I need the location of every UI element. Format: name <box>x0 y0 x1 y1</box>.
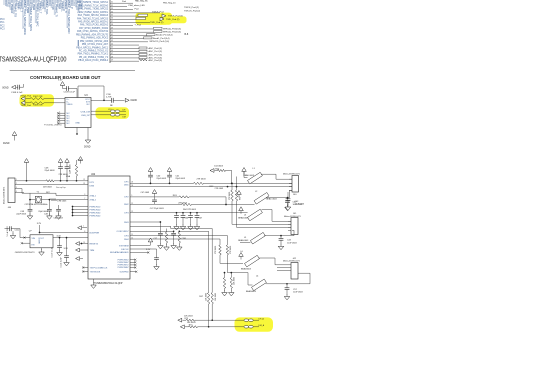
resistor R70 <box>226 245 228 255</box>
wire: U3 VCC out <box>91 99 112 101</box>
svg-text:DM3: DM3 <box>124 222 129 224</box>
node: leftmost cut-off pin names <box>0 19 5 31</box>
resistor R32 WPDATA <box>154 27 163 29</box>
wire: J44 pin4 <box>19 192 24 194</box>
resistor R68 15K <box>211 293 213 305</box>
svg-text:TUSB2046B-PRG4 32-QFP: TUSB2046B-PRG4 32-QFP <box>94 283 123 285</box>
svg-text:15K 0603: 15K 0603 <box>234 277 236 285</box>
op-amp U7 regulator body <box>30 235 53 248</box>
svg-text:45: 45 <box>111 47 113 49</box>
resistor R35 <box>144 37 153 39</box>
svg-text:46: 46 <box>111 50 113 52</box>
svg-text:1: 1 <box>16 179 17 181</box>
svg-text:DM3: DM3 <box>90 186 95 188</box>
svg-text:DM4: DM4 <box>124 239 129 241</box>
svg-text:ADC_Pin0 (3): ADC_Pin0 (3) <box>149 47 163 50</box>
svg-text:3.3V: 3.3V <box>64 248 69 250</box>
svg-text:10uF 0603: 10uF 0603 <box>287 242 297 244</box>
svg-text:CONTROLLER BOARD USB OUT: CONTROLLER BOARD USB OUT <box>30 75 101 80</box>
capacitor C42 <box>287 192 289 199</box>
svg-text:44: 44 <box>111 43 113 45</box>
svg-text:DecapCap: DecapCap <box>56 187 67 189</box>
svg-text:CRYSTAL-ECX-4.00MHz: CRYSTAL-ECX-4.00MHz <box>25 203 48 206</box>
net flag 3.3V left arrow <box>78 226 82 230</box>
svg-text:2: 2 <box>16 183 17 185</box>
svg-text:TWCK_Pad: TWCK_Pad <box>152 11 164 13</box>
svg-text:PB1_PWMH1_AD5_PCK2: PB1_PWMH1_AD5_PCK2 <box>81 37 109 40</box>
svg-text:32: 32 <box>111 5 113 7</box>
svg-text:R5A: R5A <box>66 175 71 178</box>
wires: U2 TSTPLL stubs <box>84 267 89 269</box>
svg-text:DM1: DM1 <box>124 184 129 186</box>
resistor R107 22R <box>30 98 44 100</box>
wire: U7 VOUT 3.2V rail <box>53 237 88 239</box>
ferrite bead L6 <box>245 255 260 267</box>
svg-text:ADC_Pin2 (3): ADC_Pin2 (3) <box>149 53 163 56</box>
capacitor C57 10uF <box>286 284 288 288</box>
resistor R108 22R <box>30 102 44 104</box>
op-amp U2 TUSB2046B body <box>88 176 130 279</box>
resistor R42 ADC <box>139 53 147 55</box>
net flag EXTMEM <box>130 245 151 247</box>
svg-text:EECLK: EECLK <box>121 249 129 251</box>
svg-text:PB3_UTXD1_PCK2_AD7: PB3_UTXD1_PCK2_AD7 <box>82 43 109 46</box>
wires: J40 pins <box>289 179 292 190</box>
capacitor C50 decoupling <box>176 212 178 214</box>
svg-text:PWRON1Z: PWRON1Z <box>90 206 102 208</box>
svg-text:ADC_Pin1 (3): ADC_Pin1 (3) <box>149 50 163 53</box>
svg-text:BEAD0603: BEAD0603 <box>238 216 249 219</box>
wire: feedback loop over U3 <box>78 85 104 87</box>
svg-text:0GND: 0GND <box>84 147 91 149</box>
node: U3 USB_DM USB_DP pin names <box>75 111 90 124</box>
svg-text:DM2: DM2 <box>124 204 129 206</box>
wire up to J42 <box>309 273 311 284</box>
node: PWRON bus left of U2 <box>72 206 88 217</box>
wire row OVRCUR <box>130 230 174 232</box>
wire: section divider <box>10 70 135 72</box>
svg-text:PT2069A_USBF10: PT2069A_USBF10 <box>44 124 63 127</box>
svg-text:5.1uF 0603: 5.1uF 0603 <box>7 225 9 236</box>
svg-text:?_Pad: ?_Pad <box>135 25 142 27</box>
svg-text:4: 4 <box>16 191 17 193</box>
connector J44 <box>8 178 15 203</box>
power flag feeding bead L1 <box>242 168 247 172</box>
svg-text:C114 2.2uF: C114 2.2uF <box>61 256 63 267</box>
power flag at bead L3 <box>239 207 244 211</box>
svg-text:BEAD0603: BEAD0603 <box>241 268 252 271</box>
net flag TWCK_Pad <box>162 14 166 18</box>
ferrite bead L1 <box>248 172 263 184</box>
svg-text:CAT6219-330TDGT3: CAT6219-330TDGT3 <box>15 251 35 254</box>
resistor R67 15K <box>207 293 209 305</box>
svg-text:10uF 0603: 10uF 0603 <box>293 292 303 294</box>
svg-text:R64 27R 0603: R64 27R 0603 <box>183 209 197 211</box>
svg-text:PA5_RXD0_NPCS3_MCDA1: PA5_RXD0_NPCS3_MCDA1 <box>78 21 109 24</box>
svg-text:USB_DP: USB_DP <box>81 115 90 117</box>
svg-text:Bead2_Pin1: Bead2_Pin1 <box>156 35 169 37</box>
svg-text:ADC_Pin4 (3): ADC_Pin4 (3) <box>149 59 163 62</box>
svg-text:27R 0603: 27R 0603 <box>229 192 231 200</box>
svg-text:PC_AD_PWML0_TIOA2_X1: PC_AD_PWML0_TIOA2_X1 <box>79 50 109 53</box>
svg-text:DM_A: DM_A <box>259 324 265 327</box>
svg-text:24R 0603: 24R 0603 <box>43 186 53 188</box>
svg-text:RXD0_Pad: RXD0_Pad <box>21 95 32 97</box>
svg-text:27R 0603: 27R 0603 <box>215 188 225 190</box>
svg-text:PA0_PWM0_TCLK_MCDA0: PA0_PWM0_TCLK_MCDA0 <box>79 4 109 7</box>
svg-text:TWCK_Pad (2): TWCK_Pad (2) <box>168 16 183 18</box>
op-amp U1 ATSAM3S2CA body right edge <box>109 0 111 63</box>
wire DP1 row with resistor R52 <box>130 182 194 184</box>
svg-text:WPD(2)_Pin3: WPD(2)_Pin3 <box>163 28 177 30</box>
svg-text:33: 33 <box>111 8 113 10</box>
svg-text:TXD0_Pad: TXD0_Pad <box>21 105 32 107</box>
wire bottom DP row <box>183 319 187 321</box>
wire EEDATA <box>130 252 148 254</box>
svg-text:GND: GND <box>39 239 41 244</box>
svg-text:C112: C112 <box>15 230 21 232</box>
wire: U3 bottom stub <box>76 128 78 134</box>
svg-text:C4? 0603: C4? 0603 <box>141 192 151 194</box>
net flag bottom DM <box>180 325 184 329</box>
svg-text:NC: NC <box>67 123 71 125</box>
yellow highlight RXD/TXD resistors <box>20 94 55 106</box>
wire bottom DM row <box>185 326 189 328</box>
svg-text:NC: NC <box>87 104 91 106</box>
node: left-side pin names of U1 <box>76 1 109 62</box>
ground U7 <box>41 248 43 250</box>
svg-text:PA6_TXD0_PCK0_MCDA2: PA6_TXD0_PCK0_MCDA2 <box>80 24 109 27</box>
wire USB_DP <box>91 114 111 116</box>
wire: J44 pin3 down <box>19 188 22 190</box>
svg-text:R108 22R: R108 22R <box>33 105 43 107</box>
ferrite bead L11 <box>111 114 116 117</box>
svg-text:(3,5): (3,5) <box>177 32 182 34</box>
resistor R66 <box>178 232 180 243</box>
wire: crystal right + resistor <box>42 199 50 201</box>
ground at U2 bottom <box>93 279 95 283</box>
wire: J44 pin2 to U2 <box>19 184 88 186</box>
svg-text:TWD_Pad (2): TWD_Pad (2) <box>150 22 164 24</box>
svg-text:USB_DM: USB_DM <box>81 111 90 113</box>
svg-text:48: 48 <box>111 56 113 58</box>
svg-text:27R 0603: 27R 0603 <box>215 246 217 254</box>
capacitor C53 decoupling <box>196 212 198 214</box>
wires: U7 input pins <box>24 237 26 239</box>
svg-text:Bead1_Pin1: Bead1_Pin1 <box>153 38 166 40</box>
svg-text:3.2V: 3.2V <box>37 223 42 225</box>
capacitor C47 <box>58 205 60 209</box>
svg-text:TWCLK_Pad (2): TWCLK_Pad (2) <box>184 11 200 13</box>
svg-text:TRM: TRM <box>90 250 95 252</box>
svg-text:C109 0.1uF: C109 0.1uF <box>64 92 76 94</box>
svg-text:C108 0.1uF: C108 0.1uF <box>11 92 23 94</box>
capacitor C52 decoupling <box>190 212 192 214</box>
svg-text:RESETZ: RESETZ <box>90 243 99 245</box>
svg-text:15K 0603: 15K 0603 <box>215 293 217 301</box>
capacitor C45 22pF <box>28 208 33 210</box>
ferrite bead L6 <box>244 319 249 322</box>
yellow highlight USB_DM/DP beads <box>96 107 130 119</box>
svg-text:35: 35 <box>111 14 113 16</box>
wires: J44 pins <box>15 179 19 193</box>
power 3V3 <box>78 157 83 161</box>
svg-text:WPD(2)_Pin2: WPD(2)_Pin2 <box>163 32 177 34</box>
svg-text:0GND: 0GND <box>3 143 10 145</box>
svg-text:PWRON4Z: PWRON4Z <box>90 215 102 217</box>
wire bead L2 to C42 and J40 pin4 <box>266 197 288 199</box>
node: U2 left pin names <box>90 182 108 273</box>
net flag bottom DP <box>178 318 182 322</box>
svg-text:22pF 0603: 22pF 0603 <box>175 178 185 180</box>
svg-text:PAD_Mfg_NC: PAD_Mfg_NC <box>135 0 148 3</box>
yellow highlight on TWCK/TWD nets <box>136 13 173 25</box>
svg-text:PC2: PC2 <box>0 25 5 27</box>
capacitor C51 decoupling <box>182 212 184 214</box>
svg-text:PB4_TWD1_PWMH2_TCLK1: PB4_TWD1_PWMH2_TCLK1 <box>78 54 109 56</box>
svg-text:3.3V: 3.3V <box>78 160 83 162</box>
resistor R62 pulldown <box>236 186 238 188</box>
svg-text:40: 40 <box>111 31 113 33</box>
resistor R61 pulldown <box>231 183 233 185</box>
power rail caps above U2: C48 C49 <box>58 159 63 163</box>
svg-text:42: 42 <box>111 37 113 39</box>
svg-text:PB_AD_PWML2_TIOB2_Y2: PB_AD_PWML2_TIOB2_Y2 <box>79 56 109 59</box>
resistor R65 <box>165 232 167 243</box>
wire SUSPND stub <box>130 271 136 273</box>
svg-text:PC1: PC1 <box>0 22 5 24</box>
svg-text:8: 8 <box>59 122 60 124</box>
svg-text:10uF 0603: 10uF 0603 <box>295 204 305 206</box>
svg-text:U22: U22 <box>91 174 96 176</box>
svg-text:EEDATA/GANGED: EEDATA/GANGED <box>110 251 129 254</box>
resistor R44 ADC <box>139 59 147 61</box>
crystal Y1 <box>35 196 41 203</box>
svg-text:XTAL2: XTAL2 <box>90 198 97 201</box>
svg-text:BEAD0603: BEAD0603 <box>238 239 249 242</box>
resistor R43 ADC <box>139 57 147 59</box>
power flag bottom-left <box>12 132 17 136</box>
svg-text:PA4_TWCK0_TCLK0_NPCS3: PA4_TWCK0_TCLK0_NPCS3 <box>77 17 109 20</box>
wires: U2 PWRON stubs right <box>130 259 136 269</box>
svg-text:BEAD0603: BEAD0603 <box>246 290 257 293</box>
ferrite bead L4 <box>252 279 267 291</box>
svg-text:37: 37 <box>111 21 113 23</box>
svg-text:PB4_alarm_LED: PB4_alarm_LED <box>129 4 146 7</box>
svg-text:34: 34 <box>111 11 113 13</box>
svg-text:27R 0603: 27R 0603 <box>230 246 232 254</box>
node: U3 left pin names <box>67 99 73 106</box>
ground at U3 bottom <box>87 128 89 138</box>
svg-text:PB2_Reg_20: PB2_Reg_20 <box>163 3 176 5</box>
wire bottom bead L4 path <box>227 272 248 274</box>
capacitor C46 22pF <box>47 208 52 210</box>
svg-text:C113 0.1uF: C113 0.1uF <box>52 246 54 257</box>
svg-text:PWRON3Z: PWRON3Z <box>90 212 102 214</box>
svg-text:43: 43 <box>111 40 113 42</box>
svg-text:CAP 0603: CAP 0603 <box>54 216 64 219</box>
svg-text:PA1_PWM1_TIOB0_NPCS2: PA1_PWM1_TIOB0_NPCS2 <box>79 8 109 11</box>
ferrite bead L10 <box>111 110 116 113</box>
svg-text:PC3: PC3 <box>0 29 5 31</box>
svg-text:XTAL1: XTAL1 <box>90 194 97 197</box>
svg-text:WPD/CD_Pin3 (3,4): WPD/CD_Pin3 (3,4) <box>150 41 170 43</box>
svg-text:PC0: PC0 <box>0 19 5 21</box>
resistor R69 <box>219 245 221 255</box>
wire row jog down <box>130 225 171 227</box>
svg-text:TSTMODE: TSTMODE <box>90 271 101 273</box>
net flag TWD_Pad <box>160 17 164 21</box>
svg-text:PA8_CTS0_ADTRG_XOUT32: PA8_CTS0_ADTRG_XOUT32 <box>77 30 109 33</box>
power flags and caps C40 C41 right of U2 <box>148 168 153 172</box>
svg-text:(3,4): (3,4) <box>168 35 173 37</box>
svg-text:27R 0603: 27R 0603 <box>197 179 207 181</box>
wire DP2 row with resistor R63 <box>130 196 179 198</box>
svg-text:Molex-53398-0671: Molex-53398-0671 <box>4 186 6 204</box>
wire row DM3 with cap cluster <box>130 221 160 223</box>
ferrite bead L7 <box>244 326 249 329</box>
wire bead L1 to J40 <box>261 173 276 175</box>
net flag spare <box>76 257 80 261</box>
svg-text:PA9_PWMH0_TIOA0_NPCS1: PA9_PWMH0_TIOA0_NPCS1 <box>77 1 109 4</box>
wires: J41 pins <box>288 221 291 230</box>
svg-text:TSTPLL/DMNCLK: TSTPLL/DMNCLK <box>90 267 108 269</box>
wire: XTAL2 to U2 <box>57 199 89 201</box>
svg-text:0GND: 0GND <box>2 88 9 90</box>
svg-text:49: 49 <box>111 60 113 62</box>
svg-text:C?M 0603: C?M 0603 <box>57 200 67 202</box>
wires into J42 <box>277 267 291 269</box>
svg-text:PB14_NPCS1_PWMH3_DAC1: PB14_NPCS1_PWMH3_DAC1 <box>76 46 109 49</box>
wires: U1 right side pin wires with pin numbers <box>110 2 160 62</box>
svg-text:OVRCUR1Z: OVRCUR1Z <box>117 231 130 233</box>
svg-text:15K 0603: 15K 0603 <box>206 293 208 301</box>
svg-text:22pF 0603: 22pF 0603 <box>45 170 56 172</box>
svg-text:TWD_Pad (2): TWD_Pad (2) <box>166 19 180 21</box>
resistor R30 on TWCK net (highlighted) <box>138 14 148 16</box>
svg-text:B-8: B-8 <box>185 33 189 36</box>
wire DP4 row <box>130 235 227 237</box>
svg-text:EN: EN <box>32 244 35 246</box>
svg-text:(3,4): (3,4) <box>165 38 170 40</box>
power flag above J44 <box>24 159 29 163</box>
resistor R40 ADC <box>139 47 147 49</box>
wire bead L3 to J41 pin1 <box>262 209 273 211</box>
capacitor C110 <box>111 98 113 103</box>
svg-text:R6?: R6? <box>239 197 241 200</box>
svg-text:GND: GND <box>75 123 80 125</box>
ferrite bead L2 <box>254 193 269 205</box>
wire: J44 pin1 to U2 <box>19 180 46 182</box>
svg-text:R107 22R: R107 22R <box>33 96 43 98</box>
wire DM2 row with resistor R64 <box>130 204 182 206</box>
svg-text:VBUS: VBUS <box>67 104 73 106</box>
svg-text:2-YW: 2-YW <box>106 97 111 99</box>
svg-text:39: 39 <box>111 27 113 29</box>
svg-text:3: 3 <box>16 187 17 189</box>
svg-text:VIN: VIN <box>32 238 36 240</box>
svg-text:31: 31 <box>111 2 113 4</box>
svg-text:41: 41 <box>111 34 113 36</box>
svg-text:1: 1 <box>83 226 84 228</box>
svg-text:EXTMEM: EXTMEM <box>119 245 129 247</box>
svg-text:22pF 0603: 22pF 0603 <box>156 178 166 180</box>
svg-text:DM: DM <box>123 117 126 119</box>
node: U2 right pin names <box>110 181 129 273</box>
ground flag 0GND right <box>125 98 129 102</box>
wire: crystal loop top <box>30 192 56 194</box>
wire to J42 top pin via bead L3 <box>220 262 243 264</box>
resistor R31 on TWD net (highlighted) <box>136 17 146 19</box>
svg-text:PA2_PWM2_SCK0_DATRG: PA2_PWM2_SCK0_DATRG <box>79 11 108 14</box>
node: U7 pin names <box>32 238 45 246</box>
wire DM1 row <box>130 186 292 188</box>
capacitor C43 <box>280 236 282 239</box>
svg-text:36: 36 <box>111 18 113 20</box>
net flag TXD0_Pad <box>21 101 25 105</box>
svg-text:PA3_TWD0_NPCS3_MCDA3: PA3_TWD0_NPCS3_MCDA3 <box>78 14 109 17</box>
svg-text:104 0603: 104 0603 <box>214 166 224 168</box>
op-amp U3 USB transceiver body <box>65 98 91 128</box>
svg-text:PB2_URXD1_NPCS2_AD6: PB2_URXD1_NPCS2_AD6 <box>80 40 109 43</box>
svg-text:PB13_DAC0_PCK0_PWML2: PB13_DAC0_PCK0_PWML2 <box>78 59 108 62</box>
wires: U3 lower-left stub pins <box>57 112 65 125</box>
svg-text:C4? 22pF 0603: C4? 22pF 0603 <box>150 208 165 210</box>
svg-text:DP_A: DP_A <box>259 317 265 320</box>
long vertical wires to bottom <box>211 229 213 293</box>
svg-text:3.3V: 3.3V <box>58 80 63 82</box>
power flag between pulldowns <box>237 191 242 195</box>
svg-text:47: 47 <box>111 53 113 55</box>
node: rotated top pin net labels of U1 <box>4 0 84 35</box>
svg-text:CAP 0603: CAP 0603 <box>69 164 72 174</box>
wire: XTAL1 to U2 <box>55 193 57 195</box>
resistor R34 <box>147 34 156 36</box>
svg-text:38: 38 <box>111 24 113 26</box>
svg-text:SUSPND: SUSPND <box>119 271 129 273</box>
svg-text:(3,5): (3,5) <box>177 28 182 30</box>
capacitor C113 <box>59 238 61 246</box>
svg-text:PA7_RTS0_PWMH3_XIN32: PA7_RTS0_PWMH3_XIN32 <box>79 27 108 30</box>
svg-text:PWRON8Z: PWRON8Z <box>118 267 130 269</box>
svg-text:0GND: 0GND <box>131 100 138 102</box>
power 3V3 with capacitor C109 at U3 top <box>60 82 65 86</box>
svg-text:PWRON2Z: PWRON2Z <box>90 209 102 211</box>
capacitor C8x <box>130 248 157 250</box>
node: U3 right pin names <box>85 99 90 106</box>
capacitor C42 10uF <box>287 198 289 201</box>
power arrows + caps C4x left mid <box>152 190 157 194</box>
svg-text:BUSPWR: BUSPWR <box>90 232 100 234</box>
node: U2 pin numbers <box>83 179 133 244</box>
ferrite bead L5 into J41 pin4 <box>240 241 250 243</box>
power flag at bead L6 <box>239 253 244 257</box>
net flag TRM <box>76 248 80 252</box>
node: U3 lower-left pin marks <box>67 113 71 125</box>
svg-text:TWCK_Pad (2): TWCK_Pad (2) <box>184 7 199 9</box>
svg-text:TSAM3S2CA-AU-LQFP100: TSAM3S2CA-AU-LQFP100 <box>0 55 67 64</box>
wire USB_DM <box>91 110 111 112</box>
resistors R71 R72 pulldown to ground <box>224 272 226 274</box>
resistor R33 WPDATA <box>154 31 163 33</box>
svg-text:PB0_PWMH0_AD4_RTCOUT0: PB0_PWMH0_AD4_RTCOUT0 <box>76 33 109 36</box>
svg-text:22pF 0603: 22pF 0603 <box>16 214 27 216</box>
wire row to decoupling caps <box>130 212 248 214</box>
net flag RESET <box>76 242 80 246</box>
resistor R41 ADC <box>139 50 147 52</box>
wire DM4 row <box>130 238 220 240</box>
yellow highlight DP/DM output beads <box>235 317 274 331</box>
